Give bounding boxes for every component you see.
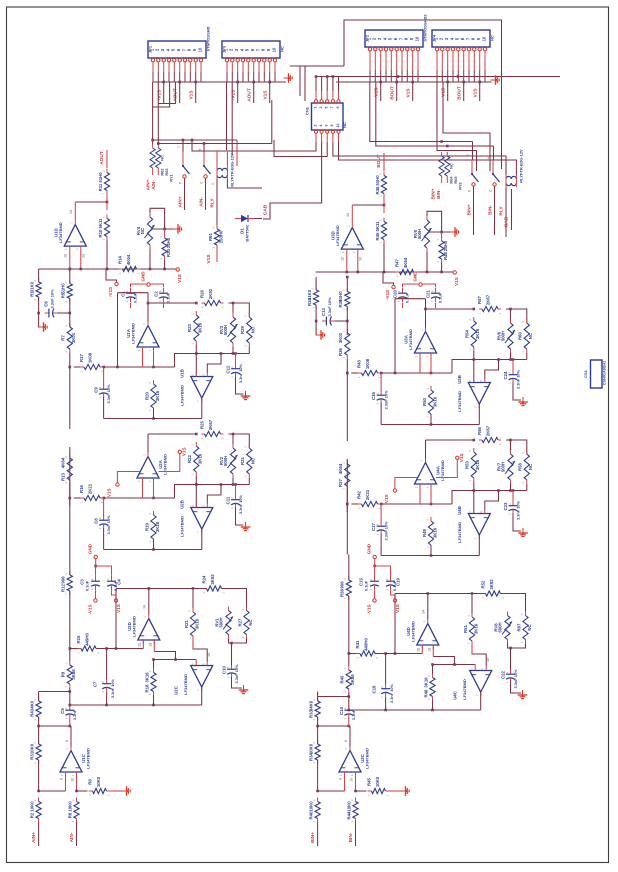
resistor R50: [430, 386, 432, 390]
svg-text:7: 7: [196, 689, 200, 691]
wire: [163, 303, 165, 308]
svg-text:1: 1: [148, 693, 152, 695]
wire: [107, 648, 144, 650]
svg-text:C1: C1: [121, 291, 126, 297]
svg-text:V1S: V1S: [188, 90, 194, 100]
svg-text:0.1uF: 0.1uF: [166, 292, 171, 303]
capacitor C13: [322, 320, 326, 322]
svg-text:LF347BMD: LF347BMD: [179, 385, 184, 406]
svg-text:10: 10: [336, 124, 340, 128]
node V1S: [393, 599, 396, 602]
svg-text:10: 10: [70, 778, 74, 782]
capacitor C17: [380, 521, 382, 526]
svg-text:2: 2: [350, 799, 354, 801]
wire: [375, 653, 386, 655]
op-amp U4C: [470, 671, 492, 693]
svg-text:C18: C18: [372, 685, 377, 693]
svg-text:2K21: 2K21: [365, 489, 370, 500]
wire: [346, 381, 348, 441]
wire: [95, 559, 97, 566]
wire: [69, 375, 71, 429]
svg-text:GND: GND: [141, 271, 146, 282]
wire: [513, 383, 521, 401]
svg-text:LF347BMD: LF347BMD: [410, 621, 415, 642]
svg-text:2K67: 2K67: [208, 419, 213, 430]
wire: [152, 82, 154, 144]
svg-text:1: 1: [101, 238, 105, 240]
svg-text:2: 2: [342, 331, 346, 333]
svg-text:V1S: V1S: [454, 277, 459, 286]
svg-text:1: 1: [427, 698, 431, 700]
svg-text:7: 7: [466, 154, 470, 156]
wire: [112, 591, 117, 599]
svg-text:3K01: 3K01: [71, 332, 76, 343]
wire: [318, 725, 350, 727]
capacitor C23: [512, 501, 514, 505]
svg-text:10: 10: [207, 653, 211, 657]
svg-text:1: 1: [378, 195, 382, 197]
wire: [216, 245, 218, 262]
svg-text:R16: R16: [79, 484, 84, 492]
svg-text:R67: R67: [516, 623, 521, 631]
wire: [38, 726, 40, 744]
wire: [164, 229, 166, 235]
svg-text:R14: R14: [118, 255, 123, 263]
svg-text:U3A: U3A: [404, 335, 409, 344]
wire: [349, 709, 481, 711]
wire: [369, 51, 371, 70]
resistor R48: [432, 674, 434, 678]
svg-text:24H0: 24H0: [166, 237, 171, 248]
ground: [518, 397, 528, 406]
svg-text:NC: NC: [160, 155, 165, 161]
trimmer RV5: [426, 216, 428, 220]
svg-text:1: 1: [71, 820, 75, 822]
op-amp U3B: [468, 383, 490, 405]
svg-text:51H0: 51H0: [98, 172, 103, 183]
trimmer RV7: [510, 450, 512, 454]
svg-text:7: 7: [474, 406, 478, 408]
svg-text:3K16: 3K16: [198, 322, 203, 333]
wire: [437, 82, 477, 171]
wire: [195, 476, 197, 508]
wire: [74, 497, 80, 499]
resistor R40: [317, 798, 319, 802]
svg-text:LF347BMD: LF347BMD: [335, 225, 340, 246]
resistor R19: [153, 511, 155, 515]
wire: [154, 652, 176, 660]
svg-text:3.3nF 10%: 3.3nF 10%: [106, 515, 111, 535]
svg-text:RLYFTR-B3G-12V: RLYFTR-B3G-12V: [230, 153, 235, 187]
wire: [103, 367, 105, 385]
resistor R7: [69, 323, 71, 327]
wire: [344, 20, 502, 169]
wire: [226, 82, 228, 150]
wire: [201, 529, 203, 550]
svg-text:2: 2: [501, 597, 505, 599]
svg-text:NC: NC: [528, 464, 533, 470]
capacitor C4: [111, 576, 113, 581]
svg-text:2: 2: [33, 699, 37, 701]
svg-text:R25: R25: [200, 420, 205, 428]
svg-text:C8: C8: [94, 518, 99, 524]
wire: [370, 82, 442, 142]
wire: [232, 434, 234, 444]
wire: [374, 566, 376, 576]
resistor R20: [153, 380, 155, 384]
wire: [351, 372, 357, 374]
svg-text:1: 1: [76, 652, 80, 654]
svg-text:1: 1: [425, 416, 429, 418]
svg-text:2: 2: [101, 216, 105, 218]
wire: [149, 249, 151, 269]
wire: [38, 269, 40, 282]
capacitor C21: [435, 288, 437, 293]
wire: [526, 484, 528, 491]
svg-text:4K64: 4K64: [403, 257, 408, 268]
capacitor C1: [130, 288, 132, 293]
resistor R9: [69, 661, 71, 665]
svg-text:U1C: U1C: [81, 754, 86, 763]
wire: [349, 726, 351, 747]
svg-text:1: 1: [505, 681, 509, 683]
wire: [38, 297, 40, 313]
svg-text:U2B: U2B: [179, 500, 184, 509]
capacitor CS1: [591, 360, 603, 388]
svg-text:10: 10: [414, 36, 419, 41]
wire: [433, 657, 455, 665]
wire: [175, 354, 250, 368]
svg-text:2: 2: [33, 280, 37, 282]
svg-text:AOUT: AOUT: [246, 88, 252, 102]
svg-text:U4B: U4B: [457, 506, 462, 515]
svg-text:CAB: CAB: [262, 204, 268, 215]
svg-text:2: 2: [520, 613, 524, 615]
svg-text:1: 1: [342, 357, 346, 359]
svg-text:2K67: 2K67: [486, 294, 491, 305]
svg-text:2: 2: [71, 799, 75, 801]
resistor R30: [164, 234, 166, 238]
svg-text:2: 2: [312, 742, 316, 744]
svg-text:2: 2: [64, 248, 68, 250]
wire: [179, 82, 181, 103]
ground: [241, 522, 251, 531]
svg-text:10: 10: [486, 658, 490, 662]
svg-text:1: 1: [313, 107, 317, 109]
wire: [236, 140, 238, 166]
svg-text:3.3nF 10%: 3.3nF 10%: [234, 664, 239, 684]
svg-text:U2A: U2A: [158, 460, 163, 469]
capacitor C20: [402, 288, 404, 293]
svg-text:9: 9: [338, 778, 342, 780]
svg-text:R44: R44: [346, 811, 351, 819]
svg-text:449H0: 449H0: [364, 638, 369, 651]
wire: [232, 677, 243, 688]
svg-text:LF347BMD: LF347BMD: [408, 329, 413, 350]
svg-text:3.3nF 10%: 3.3nF 10%: [516, 500, 521, 520]
wire: [76, 776, 78, 791]
wire: [159, 454, 180, 472]
wire: [175, 485, 250, 499]
ground: [518, 528, 528, 537]
svg-text:2: 2: [101, 170, 105, 172]
svg-text:BIN-: BIN-: [436, 189, 442, 199]
svg-text:1: 1: [33, 762, 37, 764]
wire: [69, 591, 71, 649]
wire: [346, 372, 349, 375]
svg-text:1K08: 1K08: [88, 352, 93, 363]
svg-text:1: 1: [211, 247, 215, 249]
svg-text:NC: NC: [449, 163, 454, 169]
svg-text:8: 8: [344, 740, 348, 742]
wire: [336, 81, 492, 83]
svg-text:1: 1: [378, 241, 382, 243]
svg-text:1: 1: [342, 308, 346, 310]
svg-text:C20: C20: [393, 289, 398, 297]
svg-text:R3: R3: [29, 754, 34, 760]
svg-text:2K21: 2K21: [88, 483, 93, 494]
svg-text:2: 2: [312, 699, 316, 701]
wire: [374, 591, 376, 599]
wire: [346, 253, 348, 273]
resistor R24: [203, 588, 207, 590]
svg-text:BIN+: BIN+: [431, 188, 437, 199]
wire: [380, 504, 382, 522]
svg-text:-V1S: -V1S: [108, 287, 113, 297]
wire: [455, 664, 476, 666]
wire: [274, 140, 327, 157]
svg-text:500H: 500H: [498, 622, 503, 632]
svg-text:3K16: 3K16: [432, 527, 437, 538]
svg-text:1: 1: [367, 794, 371, 796]
svg-text:1: 1: [101, 691, 105, 693]
svg-text:3K16: 3K16: [475, 328, 480, 339]
svg-text:R29: R29: [240, 325, 245, 333]
svg-text:1: 1: [200, 306, 204, 308]
wire: [317, 823, 319, 847]
svg-text:12: 12: [64, 254, 68, 258]
wire: [70, 726, 72, 747]
svg-text:-V1S: -V1S: [230, 89, 236, 100]
svg-text:2: 2: [64, 281, 68, 283]
svg-text:LF347BMD: LF347BMD: [457, 522, 462, 543]
wire: [526, 353, 528, 360]
svg-text:2: 2: [33, 742, 37, 744]
wire: [426, 252, 428, 272]
trimmer RV4: [149, 213, 151, 217]
svg-text:STMTOSSHD: STMTOSSHD: [206, 26, 211, 51]
svg-text:6: 6: [325, 125, 329, 127]
svg-text:U1D: U1D: [53, 228, 58, 237]
svg-text:10K0: 10K0: [308, 743, 313, 754]
svg-text:NC: NC: [140, 228, 145, 234]
resistor R43: [358, 372, 362, 374]
svg-text:9: 9: [336, 107, 340, 109]
wire: [232, 478, 234, 485]
wire: [38, 823, 40, 847]
wire: [351, 503, 357, 505]
svg-text:1: 1: [33, 820, 37, 822]
svg-text:NC: NC: [342, 122, 347, 128]
svg-text:NC: NC: [527, 624, 532, 630]
svg-text:R46: R46: [375, 186, 380, 194]
svg-text:2: 2: [137, 349, 141, 351]
svg-text:R51: R51: [463, 624, 468, 632]
wire: [379, 81, 382, 84]
svg-text:U4A: U4A: [436, 466, 441, 475]
svg-text:1: 1: [343, 717, 347, 719]
wire: [511, 189, 513, 230]
resistor R39: [346, 288, 348, 292]
svg-text:R53: R53: [465, 460, 470, 468]
wire: [153, 660, 155, 669]
wire: [317, 692, 319, 702]
svg-text:7: 7: [474, 537, 478, 539]
capacitor C11: [235, 495, 237, 499]
svg-text:1: 1: [425, 547, 429, 549]
relay RY1 coil: [217, 168, 227, 171]
wire: [348, 654, 350, 667]
svg-text:R50: R50: [422, 397, 427, 405]
svg-text:5: 5: [479, 511, 483, 513]
resistor R65: [445, 156, 450, 176]
svg-text:3K16: 3K16: [423, 677, 428, 688]
svg-text:U1A: U1A: [126, 329, 131, 338]
wire: [70, 648, 78, 650]
wire: [382, 503, 453, 505]
svg-text:R38: R38: [340, 588, 345, 596]
wire: [395, 593, 428, 595]
wire: [344, 776, 346, 791]
svg-text:1: 1: [101, 192, 105, 194]
wire: [318, 696, 349, 698]
op-amp U2A: [137, 457, 159, 479]
svg-text:2: 2: [211, 227, 215, 229]
svg-text:1: 1: [230, 507, 234, 509]
wire: [69, 299, 71, 328]
svg-text:500H: 500H: [219, 617, 224, 627]
svg-text:51H0: 51H0: [61, 283, 66, 294]
wire: [506, 309, 527, 323]
svg-text:R30: R30: [166, 248, 171, 256]
ground: [284, 73, 293, 83]
svg-text:R36: R36: [338, 347, 343, 355]
trimmer RV3: [232, 313, 234, 317]
wire: [182, 140, 184, 152]
svg-text:6: 6: [470, 668, 474, 670]
svg-text:-V1S: -V1S: [366, 604, 371, 614]
svg-text:906: 906: [340, 581, 345, 589]
svg-text:C3: C3: [80, 579, 85, 585]
svg-text:2: 2: [468, 450, 472, 452]
wire: [103, 498, 105, 516]
svg-text:1: 1: [64, 300, 68, 302]
relay RY1 contact 1: [182, 152, 184, 165]
resistor R45: [348, 666, 350, 670]
svg-text:1: 1: [466, 643, 470, 645]
resistor R23: [195, 311, 197, 315]
svg-text:10: 10: [271, 47, 276, 52]
svg-text:1: 1: [312, 820, 316, 822]
svg-text:C21: C21: [426, 289, 431, 297]
svg-text:2: 2: [342, 289, 346, 291]
wire: [104, 366, 175, 368]
svg-text:NC: NC: [528, 333, 533, 339]
wire: [104, 497, 175, 499]
svg-text:8: 8: [65, 740, 69, 742]
wire: [142, 640, 144, 649]
resistor R6: [76, 798, 78, 802]
wire: [383, 204, 386, 207]
svg-text:U4C: U4C: [453, 691, 458, 700]
op-amp U1B: [191, 377, 213, 399]
wire: [103, 528, 105, 550]
svg-text:3K92: 3K92: [489, 579, 494, 590]
wire: [106, 269, 117, 282]
wire: [348, 719, 350, 727]
resistor R11: [106, 169, 108, 173]
svg-text:2: 2: [107, 794, 111, 796]
svg-text:2: 2: [414, 486, 418, 488]
wire: [142, 478, 144, 498]
svg-text:CAB: CAB: [504, 216, 510, 227]
wire: [430, 484, 432, 504]
connector JP2: [365, 30, 423, 47]
svg-text:3.3nF 10%: 3.3nF 10%: [513, 669, 518, 689]
svg-text:2: 2: [425, 388, 429, 390]
svg-text:C11: C11: [226, 496, 231, 504]
svg-text:3: 3: [148, 349, 152, 351]
svg-text:1: 1: [397, 300, 401, 302]
resistor R67: [525, 612, 527, 616]
wire: [383, 153, 385, 171]
svg-text:AIN-: AIN-: [69, 832, 75, 842]
wire: [397, 75, 400, 78]
svg-text:3K92: 3K92: [210, 574, 215, 585]
svg-text:AIN+: AIN+: [146, 179, 152, 190]
svg-text:V1S: V1S: [116, 604, 121, 613]
wire: [380, 82, 382, 101]
svg-text:R18: R18: [144, 684, 149, 692]
svg-text:NC: NC: [248, 619, 253, 625]
svg-text:14: 14: [422, 610, 426, 614]
wire: [375, 566, 391, 576]
wire: [236, 508, 244, 526]
svg-text:-V1S: -V1S: [106, 488, 111, 498]
wire: [147, 434, 149, 453]
svg-text:1: 1: [343, 598, 347, 600]
svg-text:2: 2: [222, 592, 226, 594]
wire: [452, 491, 527, 505]
svg-text:2: 2: [200, 182, 204, 184]
capacitor C6: [45, 312, 49, 314]
resistor R60: [526, 319, 528, 323]
resistor R25: [202, 433, 205, 435]
ground: [122, 786, 131, 796]
svg-text:R60: R60: [518, 331, 523, 339]
resistor R10: [106, 215, 108, 219]
wire: [216, 151, 218, 167]
svg-text:3.3nF 10%: 3.3nF 10%: [110, 678, 115, 698]
wire: [69, 649, 71, 662]
wire: [192, 590, 194, 608]
wire: [430, 545, 432, 556]
resistor R58: [526, 450, 528, 454]
svg-text:V1S: V1S: [459, 453, 464, 462]
wire: [152, 62, 154, 72]
svg-text:2: 2: [342, 462, 346, 464]
capacitor C24: [512, 370, 514, 374]
